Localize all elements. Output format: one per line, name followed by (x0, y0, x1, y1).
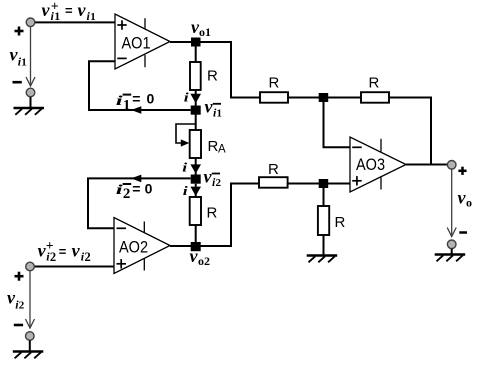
label vi1- (205, 97, 223, 120)
node B (bottom row) (319, 179, 329, 188)
source vo arrow (447, 169, 456, 236)
wire node A to AO3 inverting input (324, 102, 351, 147)
label vi2 (7, 288, 25, 312)
terminal vo minus (447, 240, 456, 255)
plus sign of source vi2 (15, 272, 24, 281)
wire R1 to node vi1- with current arrow (190, 90, 201, 106)
terminal vi2 plus (26, 262, 35, 271)
wire vi2+ terminal to AO2 noninverting input (34, 266, 114, 268)
label vi2+ = vi2 (38, 238, 91, 264)
svg-text:v: v (42, 0, 51, 20)
wire feedback vi1- to AO1 inverting input (89, 61, 191, 114)
ground of source vi1 (14, 108, 45, 115)
op-amp AO3 (350, 137, 406, 192)
svg-text:0: 0 (147, 90, 155, 106)
svg-text:R: R (268, 161, 279, 178)
resistor R1 (between vo1 and vi1-) (190, 62, 218, 90)
terminal vi2 minus (26, 332, 35, 352)
wire AO1 output to node vo1 (170, 41, 192, 43)
source vi2 arrow (26, 271, 35, 328)
svg-text:AO1: AO1 (121, 35, 150, 53)
terminal vi1 plus (26, 18, 35, 27)
terminal vi1 minus (26, 88, 35, 108)
svg-text:2: 2 (19, 300, 25, 312)
svg-text:AO3: AO3 (356, 156, 385, 174)
wire R3 to node vo2 (195, 225, 197, 246)
svg-text:+: + (51, 0, 59, 13)
label vo2 (190, 246, 211, 268)
node vi2- (191, 175, 201, 184)
svg-text:R: R (269, 74, 280, 91)
resistor R (node B to ground) (318, 206, 346, 235)
wire feedback vi2- to AO2 inverting input (88, 175, 191, 229)
wire vi1+ terminal to AO1 noninverting input (35, 21, 115, 23)
wire feedback R to AO3 output (389, 98, 431, 165)
node vi1- (191, 106, 201, 115)
op-amp AO2 (114, 218, 170, 274)
wire R to node B (288, 183, 320, 185)
svg-text:R: R (207, 67, 218, 84)
minus sign of source vi2 (14, 324, 23, 327)
label vi2- (204, 166, 222, 189)
resistor R top row right (feedback) (361, 74, 389, 102)
svg-text:AO2: AO2 (119, 239, 148, 257)
ground of source vi2 (13, 352, 44, 359)
resistor R3 (between vi2- and vo2) (190, 197, 218, 225)
wire vi1- down to RA (195, 115, 197, 131)
wire node B to AO3 noninverting input (328, 183, 350, 185)
svg-text:R: R (207, 205, 218, 222)
label i (into R3) (183, 184, 189, 198)
label i2-=0 (116, 181, 153, 202)
svg-text:R: R (208, 138, 219, 155)
wire node A to second R (328, 97, 361, 99)
op-amp AO1 (115, 14, 170, 69)
label vi1+ = vi1 (42, 0, 96, 23)
wire node B down to grounded R (323, 188, 325, 206)
source vi1 arrow (26, 27, 35, 86)
svg-text:i: i (184, 90, 190, 104)
svg-text:+: + (46, 238, 54, 253)
wire vo2 to bottom resistor row (200, 184, 259, 247)
node vo1 (191, 38, 201, 47)
minus sign of output vo (459, 231, 467, 234)
wire vi2- down to R3 with current arrow (190, 184, 201, 197)
wire RA to node vi2- with current arrow (190, 158, 201, 175)
wire AO3 output to vo terminal (406, 164, 447, 166)
resistor R top row left (260, 74, 288, 102)
svg-text:2: 2 (85, 250, 91, 264)
plus sign of source vi1 (15, 27, 24, 36)
svg-text:A: A (218, 144, 226, 156)
svg-text:0: 0 (145, 181, 153, 197)
svg-text:1: 1 (217, 108, 223, 120)
label i1-=0 (116, 90, 155, 113)
plus sign of output vo (458, 167, 466, 175)
svg-text:=: = (132, 181, 140, 197)
label i (out of RA) (182, 160, 188, 174)
wire vo1 down to resistor R1 (195, 46, 197, 62)
svg-text:1: 1 (123, 97, 130, 113)
svg-text:1: 1 (21, 57, 27, 69)
minus sign of source vi1 (13, 81, 22, 84)
svg-text:R: R (335, 214, 346, 231)
svg-text:o1: o1 (199, 25, 211, 39)
ground (output) (435, 255, 466, 262)
svg-text:R: R (369, 74, 380, 91)
svg-text:2: 2 (123, 186, 130, 202)
label i (into vi1-) (184, 90, 190, 104)
node A (top row) (319, 93, 329, 102)
resistor R bottom row (259, 161, 288, 188)
svg-text:v: v (78, 0, 87, 20)
node vo2 (191, 242, 201, 251)
svg-text:v: v (72, 241, 81, 261)
label vo1 (191, 17, 211, 39)
svg-text:i: i (182, 160, 188, 174)
svg-text:o2: o2 (198, 254, 210, 268)
wire R to ground (323, 235, 325, 256)
svg-text:i: i (183, 184, 189, 198)
label vi1 (10, 45, 27, 69)
terminal vo plus (447, 161, 456, 170)
svg-text:=: = (59, 244, 67, 259)
svg-text:1: 1 (90, 11, 96, 23)
svg-text:o: o (466, 196, 472, 210)
resistor RA with adjustment arrow (176, 124, 226, 158)
label vo (458, 188, 473, 210)
ground (node B resistor) (307, 256, 338, 263)
wire R to node A (288, 97, 320, 99)
wire AO2 output to node vo2 (170, 245, 192, 247)
svg-text:2: 2 (216, 177, 222, 189)
wire vo1 to top resistor row (200, 42, 260, 98)
svg-text:=: = (65, 3, 73, 18)
svg-text:=: = (132, 90, 140, 106)
